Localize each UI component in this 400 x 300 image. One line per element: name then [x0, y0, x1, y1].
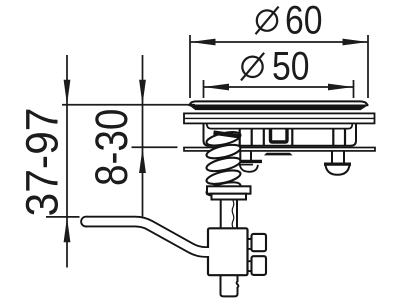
- arrow D50 left: [204, 84, 230, 91]
- svg-text:60: 60: [285, 0, 323, 43]
- threaded rod upper: [221, 200, 237, 230]
- screw upper cap: [252, 234, 267, 251]
- panel: [184, 148, 375, 151]
- stud right dome: [326, 165, 350, 175]
- arrow D50 right: [328, 84, 354, 91]
- screw lower neck: [248, 261, 252, 271]
- dimension line 8-30 vertical: [142, 55, 144, 217]
- stud left shaft upper: [240, 130, 252, 147]
- rod lower: [221, 275, 239, 296]
- lever arm body: [86, 222, 209, 252]
- washer plate: [207, 186, 251, 193]
- dimension line D60: [190, 35, 368, 98]
- arrow 37-97 top: [64, 80, 71, 105]
- lever arm outline: [86, 222, 209, 252]
- stud left flange: [238, 160, 262, 162]
- spring coil 4: [205, 155, 241, 174]
- arrow D60 right: [343, 39, 369, 46]
- latch body block: [208, 228, 248, 275]
- plate: [184, 113, 375, 123]
- svg-text:37-97: 37-97: [17, 108, 68, 217]
- spring coil 5: [205, 168, 241, 187]
- spring coil 2: [205, 129, 241, 148]
- plate midline: [184, 117, 375, 119]
- cap top outline: [190, 101, 368, 106]
- spring coil 6 partial: [205, 180, 241, 199]
- pan inner line: [207, 124, 352, 129]
- washer step: [212, 194, 247, 200]
- cam channel: [271, 130, 288, 143]
- svg-text:50: 50: [272, 45, 310, 89]
- svg-text:8-30: 8-30: [86, 109, 137, 187]
- extension line lever y217: [46, 216, 80, 218]
- dimension line D50: [204, 80, 354, 98]
- lever arm tip outline: [80, 216, 92, 228]
- arrow 8-30 top: [139, 80, 146, 105]
- extension line panel y147: [132, 146, 178, 148]
- arrow D60 left: [190, 39, 216, 46]
- spring coil 3: [205, 142, 241, 161]
- arrow 37-97 bottom: [64, 217, 71, 242]
- arrow 8-30 bottom: [139, 148, 146, 173]
- stud left shaft lower: [240, 151, 251, 160]
- stud right shaft upper: [333, 130, 345, 147]
- screw upper neck: [248, 239, 252, 249]
- cam housing left edge: [263, 130, 265, 147]
- cam foot under panel: [264, 153, 293, 156]
- spring coil 1 top cut end: [214, 133, 240, 137]
- screw lower cap: [252, 256, 267, 275]
- dimension label D50 symbol: [241, 53, 264, 81]
- dimension line 37-97 vertical: [66, 55, 68, 268]
- stud left dome: [240, 165, 258, 172]
- cam housing edge: [291, 130, 293, 147]
- extension line under-head y105: [62, 104, 195, 106]
- cap bottom thick edge: [190, 105, 368, 110]
- stud right flange: [325, 163, 351, 165]
- dimension label D60 symbol: [256, 7, 279, 35]
- lever arm tip body: [82, 218, 90, 226]
- pan outline: [204, 123, 357, 145]
- stud left washer line: [238, 164, 253, 166]
- stud right shaft lower: [332, 151, 344, 163]
- thread relief upper: [232, 201, 234, 228]
